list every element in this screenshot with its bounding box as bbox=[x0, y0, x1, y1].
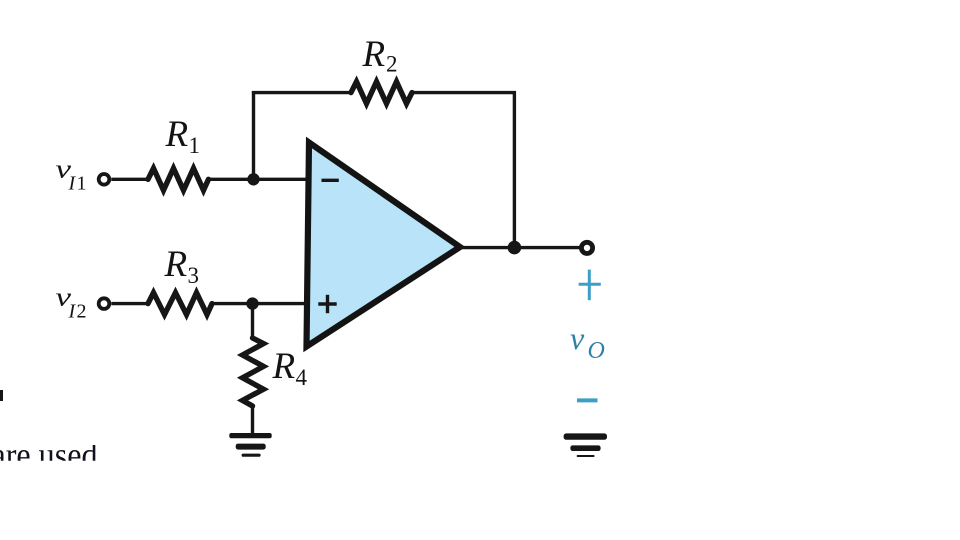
resistor R3 bbox=[148, 293, 212, 315]
svg-text:R: R bbox=[362, 34, 386, 75]
resistor R1 bbox=[148, 168, 209, 190]
ground (output reference) bbox=[564, 433, 607, 457]
input terminal vI1 bbox=[99, 174, 110, 185]
wire output to terminal bbox=[514, 246, 580, 249]
op-amp non-inverting pin marker (plus) bbox=[318, 295, 336, 313]
wire feedback down to output bbox=[513, 91, 516, 248]
svg-text:2: 2 bbox=[77, 301, 87, 323]
label vO bbox=[570, 320, 605, 364]
output terminal bbox=[581, 242, 592, 253]
label - (output polarity) bbox=[577, 398, 598, 402]
label R4 bbox=[272, 346, 308, 390]
node: output junction bbox=[508, 241, 522, 255]
node: junction at non-inverting input bbox=[246, 297, 258, 309]
wire R1 to inverting input bbox=[209, 178, 308, 181]
wire feedback top right segment bbox=[412, 91, 516, 94]
wire R4 to ground bbox=[251, 406, 254, 434]
svg-text:3: 3 bbox=[188, 263, 200, 288]
op-amp inverting pin marker (minus) bbox=[322, 179, 339, 182]
label vI2 bbox=[56, 283, 87, 323]
svg-text:R: R bbox=[165, 114, 189, 155]
svg-text:1: 1 bbox=[77, 173, 87, 195]
ground (below R4) bbox=[229, 433, 271, 457]
wire R3 to non-inverting input bbox=[212, 302, 308, 305]
svg-text:O: O bbox=[588, 338, 605, 364]
wire feedback top left segment bbox=[252, 91, 351, 94]
wire op-amp output bbox=[460, 246, 515, 249]
svg-text:2: 2 bbox=[386, 52, 398, 77]
resistor R4 bbox=[243, 338, 264, 406]
svg-text:I: I bbox=[68, 301, 77, 323]
svg-text:I: I bbox=[68, 173, 77, 195]
label R2 bbox=[362, 34, 398, 77]
svg-text:R: R bbox=[164, 244, 188, 285]
label + (output polarity) bbox=[579, 270, 601, 301]
input terminal vI2 bbox=[99, 298, 110, 309]
svg-text:4: 4 bbox=[296, 365, 308, 390]
resistor R2 bbox=[351, 82, 412, 104]
wire junction up to feedback bbox=[252, 91, 255, 179]
cropped mark at left edge bbox=[0, 390, 3, 401]
svg-text:1: 1 bbox=[189, 133, 201, 158]
wire vI1 to R1 bbox=[111, 178, 148, 181]
wire vI2 to R3 bbox=[111, 302, 148, 305]
op-amp U1 bbox=[307, 143, 461, 347]
label vI1 bbox=[56, 155, 87, 195]
svg-text:R: R bbox=[272, 346, 296, 387]
label R3 bbox=[164, 244, 200, 288]
label R1 bbox=[165, 114, 201, 158]
node: junction at inverting input bbox=[247, 173, 259, 185]
svg-text:v: v bbox=[570, 320, 585, 356]
cropped caption text "are used" (bottom-left, cut off) bbox=[0, 435, 98, 475]
wire junction down to R4 bbox=[251, 304, 254, 338]
